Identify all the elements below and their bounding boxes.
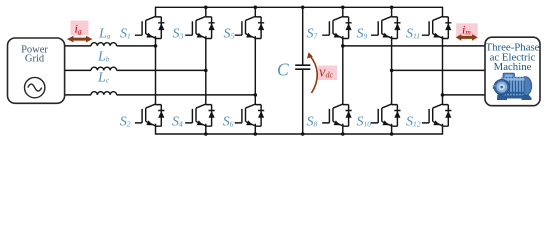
- motor icon: [493, 73, 532, 100]
- AC source: [25, 77, 45, 97]
- node: top rail capacitor: [301, 6, 305, 10]
- transistor S5: [235, 16, 265, 38]
- wire: phase b machine side: [392, 69, 485, 71]
- wire: leg1 verticals: [155, 7, 157, 135]
- wire: phase c machine side: [443, 94, 486, 96]
- transistor S4: [185, 104, 215, 126]
- svg-text:S3: S3: [173, 27, 184, 42]
- capacitor C plates: [295, 65, 310, 69]
- node: bottom rail leg3: [254, 132, 258, 136]
- wire: phase b grid side: [65, 69, 91, 71]
- transistor S9: [371, 16, 401, 38]
- wire: leg5 verticals: [391, 7, 393, 135]
- Power Grid box: [8, 38, 65, 103]
- transistor S8: [322, 104, 352, 126]
- transistor S10: [371, 104, 401, 126]
- inductor Lb: [91, 67, 117, 70]
- transistor S2: [135, 104, 165, 126]
- wire: leg6 verticals: [442, 7, 444, 135]
- svg-text:Machine: Machine: [494, 61, 532, 73]
- wire: phase a grid side: [65, 45, 91, 47]
- svg-text:C: C: [277, 60, 289, 80]
- motor feet/base: [497, 95, 532, 101]
- svg-text:La: La: [98, 27, 111, 42]
- motor body: [501, 77, 525, 96]
- motor terminal box: [503, 73, 515, 80]
- transistor S11: [422, 16, 452, 38]
- motor fins: [504, 77, 525, 95]
- arrow vdc curved: [310, 55, 318, 93]
- transistor S12: [422, 104, 452, 126]
- svg-text:S6: S6: [223, 115, 234, 130]
- wire: capacitor branch: [302, 7, 304, 134]
- motor front face: [494, 79, 509, 94]
- node: phase b tap right: [390, 69, 394, 73]
- svg-text:Lc: Lc: [97, 71, 110, 86]
- node: phase c tap right: [441, 93, 445, 97]
- node: top rail leg4: [341, 6, 345, 10]
- label im highlight: [456, 23, 477, 38]
- wire: phase c grid side: [65, 94, 91, 96]
- svg-text:Grid: Grid: [25, 54, 45, 65]
- node: phase a tap left: [154, 44, 158, 48]
- wire: leg3 verticals: [254, 7, 256, 135]
- svg-text:S10: S10: [357, 115, 372, 130]
- motor shaft: [493, 85, 496, 89]
- transistor S7: [322, 16, 352, 38]
- node: top rail leg5: [390, 6, 394, 10]
- inductor Lc: [91, 92, 117, 95]
- svg-text:S4: S4: [172, 115, 183, 130]
- wire: leg4 verticals: [342, 7, 344, 135]
- arrow ig: [67, 36, 93, 43]
- svg-text:S11: S11: [406, 27, 420, 42]
- node: phase a tap right: [341, 44, 345, 48]
- node: top rail leg3: [254, 6, 258, 10]
- node: bottom rail leg2: [204, 132, 208, 136]
- transistor S1: [135, 16, 165, 38]
- wire: top DC rail: [156, 6, 443, 8]
- svg-text:S2: S2: [120, 115, 131, 130]
- wire: leg2 verticals: [205, 7, 207, 135]
- node: bottom rail capacitor: [301, 132, 305, 136]
- node: phase b tap left: [204, 69, 208, 73]
- node: bottom rail leg4: [341, 132, 345, 136]
- motor right end cap: [519, 77, 531, 96]
- svg-text:S7: S7: [307, 27, 318, 42]
- svg-text:Lb: Lb: [97, 50, 110, 65]
- wire: phase a machine side: [343, 45, 485, 47]
- node: top rail leg2: [204, 6, 208, 10]
- Three-Phase machine box: [485, 37, 540, 106]
- transistor S3: [185, 16, 215, 38]
- svg-text:S1: S1: [120, 27, 131, 42]
- svg-text:S8: S8: [307, 115, 318, 130]
- label vdc highlight: [318, 66, 337, 81]
- svg-text:S9: S9: [357, 27, 368, 42]
- transistor S6: [235, 104, 265, 126]
- svg-text:S5: S5: [224, 27, 235, 42]
- label ig highlight: [71, 21, 89, 36]
- wire: bottom DC rail: [156, 133, 443, 135]
- inductor La: [91, 43, 117, 46]
- svg-text:S12: S12: [406, 115, 421, 130]
- node: bottom rail leg5: [390, 132, 394, 136]
- labels: switches: [97, 27, 421, 130]
- arrow im: [456, 34, 478, 41]
- node: phase c tap left: [254, 93, 258, 97]
